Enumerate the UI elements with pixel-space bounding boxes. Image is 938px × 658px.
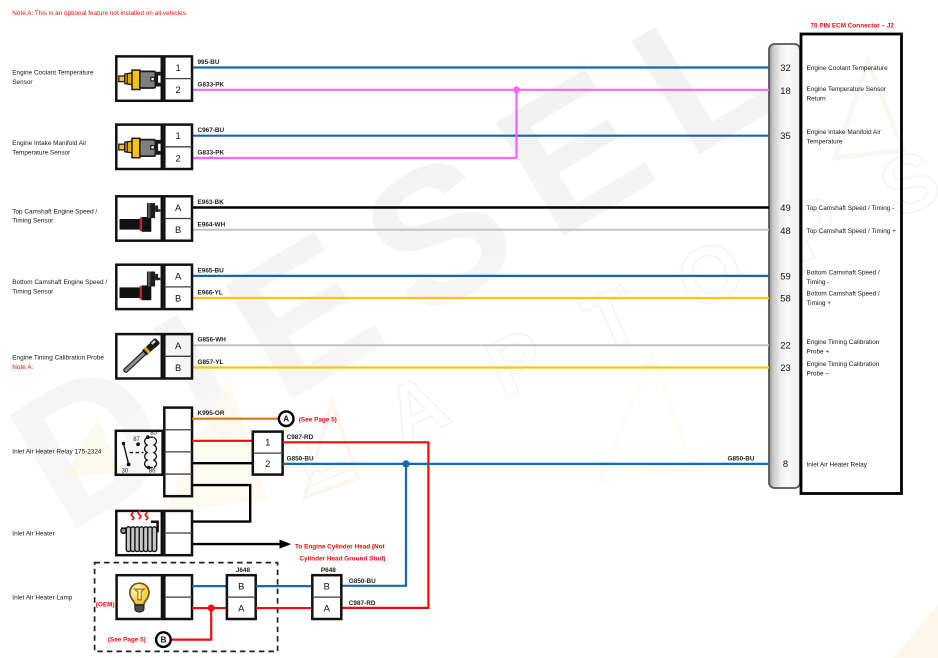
wire red branch down to node B [172,608,212,640]
connector pins box row3 [164,196,192,240]
svg-text:2: 2 [175,84,180,95]
inline connector box pins 1/2 [253,432,283,475]
svg-text:Engine Coolant Temperature: Engine Coolant Temperature [12,70,94,77]
svg-text:Engine Timing Calibration: Engine Timing Calibration [807,361,880,368]
heater E1 drawing [121,511,158,552]
svg-text:1: 1 [175,130,180,141]
wire C967-BU [192,127,769,136]
svg-text:Timing Sensor: Timing Sensor [12,218,54,225]
sensor U3 drawing [120,203,160,232]
lamp DS1 icon box (inlet air heater lamp) [117,575,162,619]
svg-text:Engine Timing Calibration Prob: Engine Timing Calibration Probe [12,354,104,361]
svg-text:2: 2 [265,458,270,469]
heater E1 icon box (inlet air heater) [116,511,162,555]
svg-text:B: B [175,224,181,235]
wire E965-BU [192,267,769,276]
sensor U2 icon box (engine intake manifold air temperature sensor) [116,125,162,169]
junction dot red [208,605,215,612]
label: To Engine Cylinder Head (red) [295,543,386,562]
svg-text:49: 49 [780,202,790,213]
wire heater to cylinder head arrow [192,540,291,549]
node A circle [279,411,294,426]
svg-text:C987-RD: C987-RD [287,434,314,441]
svg-text:(OEM): (OEM) [96,601,115,608]
connector pins box row2 [164,125,192,169]
dashed OEM boundary box [95,563,278,652]
svg-text:G833-PK: G833-PK [198,150,225,157]
sensor U1 icon box (engine coolant temperature sensor) [116,56,162,100]
svg-text:23: 23 [780,362,790,373]
svg-text:2: 2 [175,152,180,163]
svg-text:A: A [175,270,182,281]
svg-text:E963-BK: E963-BK [198,199,225,206]
wire lamp red to J648 A [192,607,227,609]
ECM pin numbers on bar [780,62,790,469]
svg-text:32: 32 [780,62,790,73]
svg-text:E966-YL: E966-YL [198,290,223,297]
sensor U3 icon box (top camshaft speed sensor) [116,196,162,240]
relay K1 drawing [122,435,157,469]
svg-text:C987-RD: C987-RD [349,600,376,607]
svg-text:G856-WH: G856-WH [198,337,227,344]
svg-text:Timing Sensor: Timing Sensor [12,288,54,295]
wire G850-BU branch down to P648 B [342,464,407,586]
junction dot blue [402,460,409,467]
wire red J648 to P648 [256,607,313,609]
relay K1 icon box (inlet air heater relay 175-2324) [116,431,163,475]
70 pin ECM connector black box [801,34,902,494]
svg-text:Note A: This is an optional fe: Note A: This is an optional feature not … [12,10,188,17]
svg-text:A: A [175,202,182,213]
svg-text:Engine Temperature Sensor: Engine Temperature Sensor [807,86,887,93]
svg-text:Engine Coolant Temperature: Engine Coolant Temperature [807,65,889,72]
svg-text:Return: Return [807,95,827,102]
wire E966-YL [192,290,769,299]
svg-text:A: A [175,340,182,351]
svg-text:A: A [324,603,331,614]
wire relay pin4 to heater [192,485,250,521]
label: Engine Coolant Temperature Sensor [12,70,94,86]
wire 995-BU [192,59,769,68]
svg-text:Cylinder Head Ground Stud): Cylinder Head Ground Stud) [300,556,386,563]
svg-text:(See Page 5): (See Page 5) [299,416,337,423]
svg-text:18: 18 [780,85,790,96]
wire E963-BK [192,199,769,208]
svg-text:87: 87 [133,437,140,443]
wire G857-YL [192,359,769,368]
sensor U2 drawing [119,138,161,157]
wire G833-PK vertical join [515,90,517,158]
svg-text:Bottom Camshaft Speed /: Bottom Camshaft Speed / [807,270,880,277]
wire C987-RD right run and down to P648 A [283,434,429,608]
svg-text:B: B [160,636,166,645]
svg-text:Timing -: Timing - [807,279,830,286]
wire G833-PK (row2) [192,150,517,159]
svg-text:70 PIN ECM Connector – J2: 70 PIN ECM Connector – J2 [811,23,895,30]
svg-text:E965-BU: E965-BU [198,267,225,274]
svg-text:G850-BU: G850-BU [728,456,755,463]
label: Top Camshaft Engine Speed / Timing Sensor [12,208,97,224]
lamp DS1 drawing [130,583,149,612]
svg-text:To Engine Cylinder Head (Not: To Engine Cylinder Head (Not [295,543,386,550]
relay pin labels 87 30 85 86 [122,431,158,475]
svg-text:Engine Timing Calibration: Engine Timing Calibration [807,339,880,346]
svg-text:1: 1 [175,62,180,73]
svg-text:48: 48 [780,225,790,236]
wire relay pin3 black to connector pin2 [192,462,253,464]
wire G850-BU main run to ECM pin 8 [283,456,769,464]
svg-text:Top Camshaft Speed / Timing +: Top Camshaft Speed / Timing + [807,228,897,235]
svg-text:Note A:: Note A: [12,364,33,371]
wire C987-RD relay to connector [192,440,253,442]
label: Engine Intake Manifold Air Temperature Sensor [12,140,87,156]
svg-text:Top Camshaft Speed / Timing -: Top Camshaft Speed / Timing - [807,205,895,212]
svg-text:Temperature: Temperature [807,138,843,145]
svg-text:Sensor: Sensor [12,79,33,86]
svg-text:59: 59 [780,270,790,281]
connector pins box row1 [164,56,192,100]
svg-text:A: A [283,415,289,424]
svg-text:G850-BU: G850-BU [287,456,314,463]
connector pins box row5 [164,334,192,378]
svg-text:C967-BU: C967-BU [198,127,225,134]
svg-text:G833-PK: G833-PK [198,81,225,88]
svg-text:(See Page 5): (See Page 5) [108,637,146,644]
svg-text:Inlet Air Heater Relay: Inlet Air Heater Relay [807,461,868,468]
relay pin stack [164,408,192,497]
svg-text:Probe +: Probe + [807,348,830,355]
svg-text:995-BU: 995-BU [198,59,220,66]
svg-text:K995-OR: K995-OR [198,410,225,417]
svg-text:G850-BU: G850-BU [349,578,376,585]
svg-text:30: 30 [122,469,129,475]
wire blue J648 to P648 [256,585,313,587]
node B circle [156,632,171,647]
wire E964-WH [192,221,769,230]
connector pins box row4 [164,265,192,309]
wire K995-OR [192,410,278,419]
lamp pins box [164,575,192,619]
svg-text:Temperature Sensor: Temperature Sensor [12,149,71,156]
ECM connector grey bar [769,44,800,488]
svg-text:86: 86 [149,469,156,475]
svg-text:1: 1 [265,437,270,448]
svg-text:Top Camshaft Engine Speed /: Top Camshaft Engine Speed / [12,208,97,215]
connector J648 [227,567,256,619]
svg-text:58: 58 [780,292,790,303]
sensor U1 drawing [119,70,161,89]
svg-text:Inlet Air Heater Relay 175-232: Inlet Air Heater Relay 175-2324 [12,449,102,456]
svg-text:E964-WH: E964-WH [198,221,226,228]
heater pins box [164,511,192,555]
svg-text:Engine Intake Manifold Air: Engine Intake Manifold Air [12,140,87,147]
wire G833-PK (row1) [192,81,769,90]
probe U5 icon box (engine timing calibration probe) [116,334,162,378]
label: Bottom Camshaft Engine Speed / Timing Sensor [12,279,107,295]
svg-text:B: B [238,581,244,592]
sensor U4 drawing [120,272,160,301]
wire G856-WH [192,337,769,346]
ECM pin function labels [807,65,897,468]
svg-text:8: 8 [783,458,788,469]
sensor U4 icon box (bottom camshaft speed sensor) [116,265,162,309]
svg-text:Probe –: Probe – [807,371,830,378]
svg-text:B: B [175,362,181,373]
wire lamp blue to J648 B [192,585,227,587]
svg-text:A: A [238,603,245,614]
svg-text:Inlet Air Heater Lamp: Inlet Air Heater Lamp [12,594,72,601]
svg-text:22: 22 [780,340,790,351]
svg-text:85: 85 [150,431,157,437]
svg-text:Timing +: Timing + [807,300,832,307]
junction dot pink [513,86,520,93]
probe U5 drawing [122,338,160,375]
svg-text:B: B [324,581,330,592]
svg-text:J648: J648 [236,567,251,574]
connector P648 [312,567,341,619]
svg-text:P648: P648 [321,567,336,574]
svg-text:Bottom Camshaft Speed /: Bottom Camshaft Speed / [807,291,880,298]
svg-text:G857-YL: G857-YL [198,359,224,366]
svg-text:Bottom Camshaft Engine Speed /: Bottom Camshaft Engine Speed / [12,279,107,286]
svg-text:B: B [175,293,181,304]
svg-text:35: 35 [780,130,790,141]
svg-text:Engine Intake Manifold Air: Engine Intake Manifold Air [807,129,882,136]
svg-text:Inlet Air Heater: Inlet Air Heater [12,530,55,537]
